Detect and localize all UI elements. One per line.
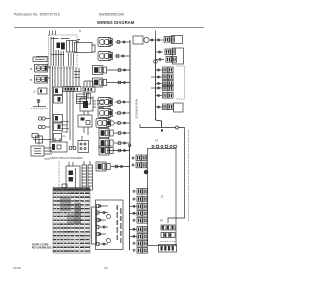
- dashed bracket for surface elements: [176, 66, 185, 99]
- latch connector row 1: [161, 225, 175, 230]
- wire: dashed return run: [188, 130, 190, 221]
- convection element E3: [166, 57, 177, 63]
- edge connector row c158: [132, 155, 147, 161]
- wire K1 to bus: [115, 41, 130, 43]
- svg-text:EW30EW5CGW: EW30EW5CGW: [99, 13, 125, 17]
- timer motor box: [133, 36, 143, 44]
- M4 connector: [115, 165, 118, 168]
- CB3 dark pin: [55, 116, 58, 121]
- inset row end marks: [97, 205, 100, 208]
- edge connector row c165: [132, 162, 147, 168]
- wire M3 to bus: [107, 69, 130, 71]
- F1 dashed base: [31, 108, 48, 110]
- pin stubs below board: [75, 68, 77, 87]
- node dot K5: [124, 142, 126, 144]
- svg-text:Publication No. 5995737919: Publication No. 5995737919: [14, 13, 60, 17]
- relay K3: [98, 109, 113, 118]
- surface element E5: [163, 74, 174, 80]
- node dot S3: [124, 82, 126, 84]
- svg-text:B: B: [30, 78, 32, 82]
- F1 bulb: [37, 100, 40, 103]
- left text smudge 2: [61, 124, 68, 127]
- surface element E4: [163, 67, 174, 73]
- K3 connector: [118, 112, 121, 115]
- LM1 side pin ticks: [93, 100, 96, 102]
- header rule: [14, 27, 204, 29]
- wire stub E6: [156, 83, 163, 85]
- inset row 4: [98, 226, 108, 228]
- meat probe jack J1 circles: [38, 117, 41, 120]
- PS1 connector pins: [69, 147, 72, 150]
- svg-text:SUPPLY CORD: SUPPLY CORD: [32, 245, 49, 247]
- node dot M3: [124, 69, 126, 71]
- wire stub E4: [156, 69, 163, 71]
- wire: right bus top stub: [155, 31, 157, 39]
- left text smudge 4: [61, 131, 67, 134]
- node dot K1: [123, 41, 125, 43]
- board trace 8: [70, 53, 72, 66]
- relay board RB1 outline: [66, 166, 80, 190]
- node dot E2a: [159, 51, 161, 53]
- wire K5 to bus: [114, 142, 130, 144]
- door switch S2 cross body: [36, 136, 43, 143]
- wire stub E1: [156, 51, 164, 53]
- table dark patch B: [60, 198, 71, 211]
- warmer element E9: [163, 104, 174, 110]
- node dot K2: [122, 55, 124, 57]
- relay K5: [99, 139, 113, 148]
- svg-text:STRIP CIRCUIT DIAGRAM: STRIP CIRCUIT DIAGRAM: [50, 157, 83, 160]
- edge connector row c206: [133, 204, 148, 210]
- wire drop 6: [63, 66, 65, 87]
- E1 bracket: [172, 36, 183, 44]
- node dot E5a: [158, 76, 160, 78]
- wire branch bus to c206: [130, 205, 138, 207]
- control board P1 dashed outline: [49, 35, 78, 68]
- K6 connector: [118, 149, 121, 152]
- node: dark junction diamond: [144, 170, 148, 174]
- RB1 relay 2: [69, 177, 74, 182]
- wire RTD1 to bus: [115, 101, 130, 103]
- wiring code table outer border: [53, 188, 90, 254]
- wires up from boards: [68, 162, 70, 166]
- node dot E8a: [158, 95, 160, 97]
- broil element E2: [165, 49, 176, 55]
- wire: feed to right side drop: [168, 128, 185, 224]
- wires SB1 down: [83, 127, 85, 133]
- node: bus circle junction: [154, 60, 158, 64]
- svg-text:MAIN HARNESS: MAIN HARNESS: [135, 99, 139, 119]
- inset row 6: [98, 243, 108, 245]
- table cell text smudges: [53, 189, 56, 191]
- CB1 dark pin: [55, 89, 58, 94]
- S4 inner marks: [34, 148, 41, 150]
- left text smudge 1: [61, 120, 69, 123]
- wire timer to bus: [149, 39, 163, 41]
- pin header PH2: [88, 165, 93, 190]
- node dot E7a: [158, 87, 160, 89]
- wire S1 to board: [47, 58, 49, 60]
- wire branch bus to c229: [130, 228, 138, 230]
- switch box SB1: [78, 115, 92, 127]
- connector hang: [62, 184, 67, 188]
- table column rules: [56, 188, 58, 254]
- wire K2 to bus: [115, 55, 130, 57]
- wire drop 4: [57, 66, 59, 87]
- board-bottom text smudge b: [74, 73, 79, 76]
- node dot RTD1: [123, 101, 125, 103]
- node dot t1: [151, 39, 153, 41]
- surface element E8: [163, 93, 174, 99]
- dotted drop to relay board: [58, 161, 60, 187]
- edge connector row c213: [133, 211, 148, 217]
- wire S3 to bus: [107, 82, 130, 84]
- board trace 2: [53, 37, 55, 66]
- wire stub E3: [156, 59, 165, 61]
- node dot E3a: [159, 59, 161, 61]
- svg-text:B: B: [30, 67, 32, 71]
- wires J2 to LM1: [83, 92, 85, 98]
- LT1 marks: [40, 90, 42, 93]
- K1 connector: [117, 41, 120, 44]
- edge connector row c250: [133, 248, 148, 254]
- svg-text:11/16: 11/16: [13, 266, 21, 270]
- splice row parts: [32, 134, 38, 138]
- thermal fuse F1 stem: [38, 99, 40, 107]
- CB4 dark pin: [58, 125, 61, 130]
- F1 base tick: [33, 106, 46, 108]
- vertical label box beside table: [92, 207, 97, 244]
- wire from T1: [92, 45, 95, 52]
- hot surface ind H1: [96, 119, 111, 128]
- T1 top stub: [78, 40, 80, 43]
- table dark patch A: [75, 203, 82, 224]
- S2 cross v: [38, 135, 40, 145]
- board-bottom text smudge c: [74, 76, 80, 79]
- RB1 relay 1: [69, 171, 74, 176]
- convection fan motor M2: [35, 76, 48, 84]
- wire: main harness bus lower: [129, 146, 131, 250]
- wire into board row c: [47, 63, 49, 65]
- inset switch circle 2: [107, 239, 111, 243]
- oven lamp row K6: [99, 146, 113, 155]
- edge connector row c220: [133, 218, 148, 224]
- wire H1 to bus: [114, 122, 130, 124]
- splice row right box: [54, 134, 62, 141]
- wire drop 5: [60, 66, 62, 87]
- inset row 2: [98, 212, 108, 214]
- node dot K6: [124, 150, 126, 152]
- cooling fan motor M1: [35, 65, 48, 73]
- relay K1: [98, 38, 113, 47]
- TB1 hatch pins: [161, 246, 163, 251]
- oven control panel outline: [148, 149, 177, 246]
- K5 connector: [118, 142, 121, 145]
- board cross trace: [51, 54, 64, 56]
- node dot t2: [158, 39, 160, 41]
- J1 second pair: [38, 125, 41, 128]
- wires LM1 to SB1: [83, 111, 85, 115]
- terminal block TB1: [159, 245, 177, 253]
- pin stub L2: [52, 31, 54, 36]
- table header shading: [53, 188, 90, 192]
- surface element E7: [163, 85, 174, 91]
- vent fan M4: [96, 162, 110, 171]
- wire drop 3: [54, 66, 56, 87]
- svg-text:10: 10: [104, 266, 108, 270]
- table row rules: [53, 190, 90, 192]
- power supply board PS1: [50, 142, 67, 152]
- K4 connector: [118, 132, 121, 135]
- wire: right distribution bus: [156, 38, 162, 128]
- LM1 text smudge 3: [97, 106, 104, 109]
- wire stub E7: [151, 87, 162, 89]
- wire up stub b: [59, 138, 61, 142]
- CB2 dark pin: [58, 97, 61, 102]
- svg-text:P2: P2: [155, 139, 159, 143]
- wire into board row a: [36, 56, 49, 58]
- S4 wires right: [44, 147, 52, 149]
- M2 windings: [36, 77, 41, 82]
- node: small arrow under feed: [161, 130, 163, 132]
- M3 connector: [118, 69, 121, 72]
- wire up stub a: [54, 138, 56, 142]
- E9 bracket: [174, 103, 184, 112]
- top edge connector row: [152, 145, 176, 148]
- node dot K3: [123, 112, 125, 114]
- svg-text:NOT SHOWN SEE: NOT SHOWN SEE: [32, 248, 52, 250]
- board trace 3: [55, 50, 57, 66]
- PS1 inner marks: [52, 144, 55, 150]
- pin stub L1: [49, 31, 51, 36]
- wire K6 to bus: [107, 150, 130, 152]
- LM1 text smudge 1: [97, 99, 104, 102]
- SB1 inner marks: [81, 118, 85, 121]
- svg-text:WIRING DIAGRAM: WIRING DIAGRAM: [97, 20, 135, 25]
- wire branch bus to c213: [130, 212, 138, 214]
- wire K4 to bus: [114, 132, 130, 134]
- edge connector row c199: [133, 196, 148, 202]
- H1 connector: [118, 122, 121, 125]
- board trace 9: [73, 53, 75, 66]
- board trace 7: [68, 53, 70, 66]
- board trace 5: [60, 51, 62, 66]
- latch connector row 2: [161, 233, 175, 238]
- wire: long horizontal feed to latch: [140, 124, 176, 128]
- latch motor M3: [93, 66, 107, 75]
- pin comb wires J3: [83, 81, 85, 87]
- board text smudge 1: [51, 38, 59, 39]
- connector block CB1: [54, 87, 63, 95]
- wire: main harness bus upper: [129, 40, 131, 146]
- connector block CB3: [54, 115, 63, 123]
- node: junction circle on latch feed: [176, 126, 179, 129]
- node dot E4a: [158, 69, 160, 71]
- board trace 4: [58, 50, 60, 66]
- S2 cross h: [33, 139, 46, 141]
- edge connector row c191: [133, 189, 148, 195]
- board trace 1: [50, 37, 52, 66]
- wire stub E9: [156, 106, 163, 108]
- relay K4: [99, 129, 113, 138]
- board text smudge 2: [61, 38, 70, 39]
- IC block on control board: [57, 43, 61, 49]
- E2 bracket: [173, 48, 184, 64]
- LM1 inner mark: [83, 101, 88, 108]
- RTD1 connector: [118, 101, 121, 104]
- table dark patch C: [67, 214, 75, 224]
- svg-text:N: N: [79, 29, 81, 33]
- RB1 trace: [75, 168, 77, 188]
- transformer T1 box: [75, 43, 93, 53]
- surface element E6: [163, 81, 174, 87]
- wire K3 to bus: [115, 112, 130, 114]
- wire M2 to bundle: [48, 77, 51, 79]
- comb bar: [84, 80, 93, 82]
- inset row 1: [98, 205, 108, 207]
- inset row 3: [98, 219, 106, 221]
- wire bundle line 2: [51, 66, 53, 142]
- node: bus junction: [129, 144, 131, 146]
- dotted separator: [160, 241, 176, 243]
- node dot E9a: [158, 106, 160, 108]
- edge connector row c236: [133, 234, 148, 240]
- oven light LT1: [38, 88, 47, 94]
- node dot K4: [124, 132, 126, 134]
- inset switch circle 1: [107, 215, 111, 219]
- heater stack HS1: [77, 94, 91, 105]
- node dot E6a: [158, 83, 160, 85]
- IC block 2 on control board: [61, 43, 65, 50]
- svg-text:WIRE COLOR: WIRE COLOR: [95, 210, 98, 226]
- board trace 6: [63, 51, 65, 66]
- relay K2: [98, 52, 113, 61]
- wire M1 to bundle: [48, 66, 51, 68]
- wire drop 7: [66, 66, 68, 133]
- pin stub N: [55, 31, 57, 36]
- interlock switch S4: [31, 146, 44, 156]
- inset vertical caption smudges: [117, 205, 119, 210]
- filter board FB1: [78, 141, 89, 153]
- wire drop 8: [69, 66, 71, 140]
- connector strip J2: [63, 87, 81, 92]
- H1 extra circle: [110, 121, 114, 125]
- connector strip J3: [83, 87, 95, 92]
- edge connector row c229: [133, 227, 148, 233]
- latch switch S3: [93, 78, 107, 87]
- wire branch bus to c236: [130, 235, 138, 237]
- K2 connector: [116, 55, 119, 58]
- lock motor box LM1: [80, 98, 93, 111]
- connector block CB4: [54, 123, 63, 131]
- wire J1/S2 to bus: [45, 118, 50, 120]
- wire bundle from board to harness: [49, 66, 51, 142]
- wire into board row b: [47, 61, 49, 63]
- edge connector row c243: [133, 241, 148, 247]
- timer motor coil: [144, 37, 149, 42]
- S1 inner mark: [35, 58, 45, 60]
- node dot M4: [121, 166, 123, 168]
- node dot H1: [124, 122, 126, 124]
- LM1 text smudge 2: [97, 103, 103, 106]
- door lock inset box: [96, 200, 124, 250]
- relay block on control board: [67, 41, 77, 53]
- connector block CB2: [54, 96, 63, 104]
- bake element E1: [164, 37, 175, 43]
- S4 text smudge: [44, 158, 50, 161]
- pin header PH1: [82, 165, 87, 190]
- S3 connector: [118, 81, 121, 84]
- wire up stub c: [81, 136, 83, 141]
- M1 windings: [36, 66, 41, 71]
- wire stub E5: [151, 76, 162, 78]
- left text smudge 3: [61, 127, 69, 130]
- wire drop 9: [72, 66, 74, 148]
- wire stub E8: [156, 95, 163, 97]
- board-bottom text smudge a: [74, 70, 80, 73]
- surface element switch S1: [33, 57, 47, 62]
- FB1 inner dots: [80, 143, 82, 145]
- sensor RTD1: [98, 98, 113, 107]
- inset row 5: [98, 233, 106, 235]
- wire M4 to bus: [111, 166, 130, 168]
